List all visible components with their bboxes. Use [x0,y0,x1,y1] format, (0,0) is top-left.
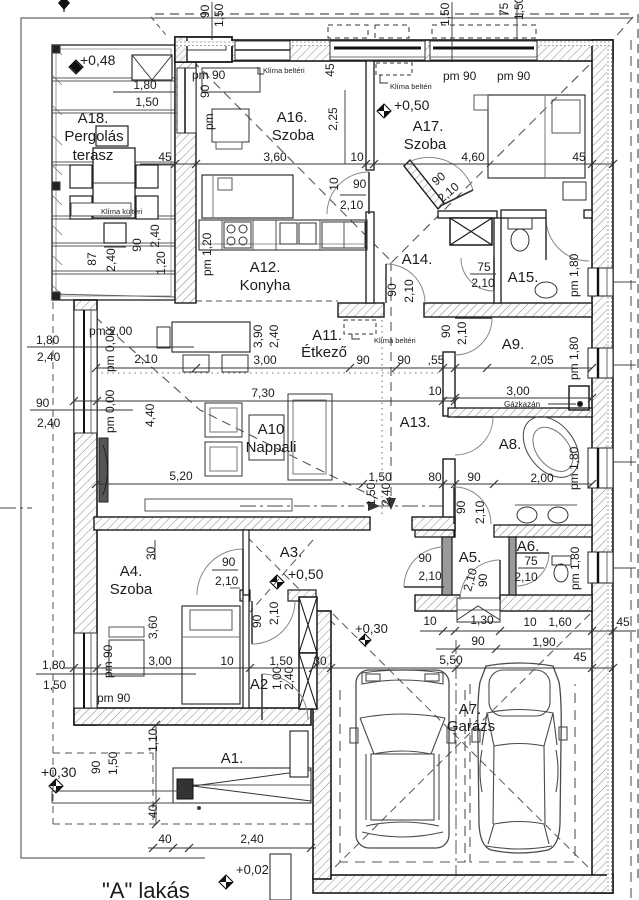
A15 door dim lines [470,273,496,275]
svg-text:45: 45 [572,150,586,164]
dim line y631 garage [420,630,636,632]
svg-text:90: 90 [454,500,468,514]
A10 sofa [288,394,332,480]
svg-text:75: 75 [524,554,538,568]
svg-text:45: 45 [616,615,630,629]
svg-text:A6.: A6. [517,538,540,555]
roof lines A3 area [247,537,335,625]
porch vertical dim x156 [155,725,157,824]
svg-text:+0,30: +0,30 [355,621,388,636]
eave dashed porch vertical [152,753,154,824]
svg-text:5,20: 5,20 [169,469,193,483]
svg-text:2,40: 2,40 [148,224,162,248]
svg-text:A17.: A17. [413,118,444,135]
svg-text:A7.: A7. [459,701,482,718]
level marker +0,30 left [49,779,63,793]
svg-text:+0,02: +0,02 [236,862,269,877]
svg-text:pm 0,00: pm 0,00 [103,389,117,433]
svg-text:+0,48: +0,48 [80,52,116,68]
svg-text:Nappali: Nappali [246,439,297,456]
A5 step box [457,598,500,622]
svg-text:2,40: 2,40 [37,350,61,364]
svg-text:30: 30 [144,546,158,560]
svg-text:87: 87 [85,252,99,266]
dim line left 90/2,40 [30,409,133,411]
door A15 entry [546,218,589,261]
svg-text:Szoba: Szoba [404,136,447,153]
window left wall A4 [74,633,97,708]
dining chairs [183,355,209,372]
svg-text:45: 45 [158,150,172,164]
svg-text:80: 80 [428,470,442,484]
svg-text:A15.: A15. [508,269,539,286]
A4/A2 wall [243,595,249,708]
door A5 from A8 [454,487,491,524]
level mark symbols [70,61,82,73]
svg-text:A5.: A5. [459,549,482,566]
svg-text:90: 90 [130,238,144,252]
wall A13/A9 A8 vertical [443,352,455,416]
svg-text:1,50: 1,50 [438,2,452,26]
A4 desk [109,640,144,676]
svg-text:5,50: 5,50 [439,653,463,667]
right wall [592,40,613,893]
A16 bed [202,175,293,218]
door A8 from A13 [455,417,493,455]
svg-text:Étkező: Étkező [301,344,347,361]
svg-text:10: 10 [428,384,442,398]
A1 porch steps [173,768,311,803]
A16 desk [212,109,249,142]
A17 klima dashed box [376,63,412,75]
svg-text:"A" lakás: "A" lakás [102,878,190,900]
svg-text:+0,50: +0,50 [288,566,324,582]
roof hip diagonal from top-right [392,44,610,262]
svg-text:1,80: 1,80 [36,333,60,347]
sink [280,223,297,244]
window right wall A9 [588,348,636,378]
svg-text:A8.: A8. [499,436,522,453]
wall kitchen/dining y303 [338,303,384,317]
svg-text:2,40: 2,40 [282,666,296,690]
blind boxes dashed above windows [328,25,368,38]
dim line porch y848 [148,847,316,849]
A17 nightstand [563,182,586,200]
svg-text:90: 90 [439,324,453,338]
door A4 [197,549,243,595]
svg-text:4,60: 4,60 [461,150,485,164]
A15 sink [535,282,557,298]
dim line y368 [96,367,592,369]
svg-text:2,10: 2,10 [473,500,487,524]
svg-text:10: 10 [423,614,437,628]
A15 toilet [508,218,532,229]
level marker pergola [69,60,83,74]
svg-text:3,60: 3,60 [263,150,287,164]
svg-text:4,40: 4,40 [143,403,157,427]
svg-text:90: 90 [198,84,212,98]
svg-text:90: 90 [467,470,481,484]
parking bay dashed right [470,684,575,862]
wall A14/A15 vertical [494,218,501,303]
svg-text:2,00: 2,00 [530,471,554,485]
A3 left wall thin [243,530,249,595]
svg-text:pm 90: pm 90 [97,691,131,705]
svg-text:2,10: 2,10 [455,321,469,345]
svg-text:,55: ,55 [428,353,445,367]
door A6 [516,553,549,586]
svg-text:1,50: 1,50 [106,751,120,775]
svg-text:A12.: A12. [250,259,281,276]
A3 bottom wall [240,590,250,601]
svg-text:2,40: 2,40 [104,248,118,272]
north arrow [58,0,70,10]
A1 bench lines [52,790,179,792]
dotted line A13 [381,320,383,516]
section dash-dot line [0,507,32,509]
svg-text:1,50: 1,50 [364,482,378,506]
A10 armchairs [205,403,242,437]
dining table [172,322,250,352]
svg-text:pm: pm [202,113,216,130]
svg-text:2,10: 2,10 [134,352,158,366]
insulation strip right wall [607,41,612,892]
window A16 top [330,41,425,60]
svg-text:+0,30: +0,30 [41,764,77,780]
wall A9/A8 [448,408,592,417]
top-left corner pillar [175,37,232,62]
property boundary dashed top [155,13,633,15]
door A17 diagonal [411,157,473,190]
wall above chimney A14 [438,211,497,218]
level marker A17 [377,104,391,118]
cabinet right [322,222,365,248]
svg-text:3,90: 3,90 [251,324,265,348]
dim line y649 garage [436,648,592,650]
dim line left 1,80/2,40 [27,346,194,348]
pergola beams [52,78,175,297]
level marker +0,02 [219,875,233,889]
top dim vertical x452 [451,2,453,62]
roof corner diagonal top-right [612,17,633,41]
svg-text:90: 90 [250,614,264,628]
svg-text:90: 90 [89,760,103,774]
svg-text:Szoba: Szoba [272,127,315,144]
wall A8/A6 [415,525,454,537]
south wing bottom wall [415,595,460,611]
svg-text:Klíma beltéri: Klíma beltéri [390,82,432,91]
svg-text:A10: A10 [258,421,285,438]
svg-text:A4.: A4. [120,563,143,580]
dotted line kitchen/dining separator [196,300,338,302]
door A9 [455,318,492,355]
svg-text:A3.: A3. [280,544,303,561]
svg-text:90: 90 [397,353,411,367]
insulation strip top wall [176,41,612,46]
A16 klima text bracket [258,67,264,74]
svg-text:A16.: A16. [277,109,308,126]
stove burners [224,222,251,248]
svg-text:90: 90 [353,177,367,191]
top dim vertical x517 [516,2,518,40]
car 1 SUV [350,670,455,848]
svg-text:7,30: 7,30 [251,386,275,400]
A16 wardrobe [202,68,260,92]
level marker garage [359,634,371,646]
svg-text:45: 45 [323,63,337,77]
top wall [175,40,613,61]
svg-text:2,10: 2,10 [215,574,239,588]
bottom pillar box [270,854,291,900]
dim line y665 left [63,667,331,669]
eave dashed left [52,302,54,824]
svg-text:Konyha: Konyha [240,277,292,294]
AC outdoor unit [104,223,126,243]
garage bottom wall [313,875,613,893]
dim line left 1,80/1,50 [36,673,196,675]
svg-text:1,50: 1,50 [212,3,226,27]
svg-text:90: 90 [418,551,432,565]
kitchen counter [199,220,367,250]
svg-text:A18.: A18. [78,110,109,127]
svg-text:90: 90 [471,634,485,648]
svg-text:A11.: A11. [312,327,342,344]
svg-text:10: 10 [350,150,364,164]
roof gutter dashed right [630,40,632,900]
svg-text:2,40: 2,40 [37,416,61,430]
svg-text:2,10: 2,10 [471,276,495,290]
roof hip across nappali [84,307,386,503]
garage axis dash-dot [455,640,457,880]
svg-text:10: 10 [523,615,537,629]
svg-text:1,30: 1,30 [470,613,494,627]
svg-text:2,10: 2,10 [418,569,442,583]
svg-text:2,40: 2,40 [267,324,281,348]
slope arrow [386,498,396,510]
svg-text:Klíma beltéri: Klíma beltéri [374,336,416,345]
door A2 top [252,601,295,644]
pergola A18 outline [52,45,175,300]
dim line y668 garage [331,667,613,669]
svg-text:3,00: 3,00 [506,384,530,398]
svg-text:10: 10 [220,654,234,668]
garage left wall [313,611,331,879]
A8 bathtub [512,406,590,488]
svg-text:10: 10 [327,177,341,191]
svg-text:30: 30 [313,654,327,668]
terrace table [93,148,135,218]
svg-text:pm 1,80: pm 1,80 [567,336,581,380]
svg-text:Gázkazán: Gázkazán [504,400,540,409]
window A17 top [430,41,537,60]
svg-text:+0,50: +0,50 [394,97,430,113]
dim line y484 [96,483,592,485]
door A16 [327,172,369,214]
A10 coffee table [249,415,284,460]
klima kulteri label box [71,203,131,216]
svg-text:90: 90 [36,396,50,410]
svg-text:Szoba: Szoba [110,581,153,598]
svg-text:75: 75 [497,2,511,16]
eave dashed porch bottom [53,823,313,825]
garage roof X [333,614,590,869]
A11 klima dashed box [344,320,376,334]
svg-text:pm 90: pm 90 [497,69,531,83]
svg-text:1,50: 1,50 [43,678,67,692]
house left wall [74,300,97,725]
svg-text:1,10: 1,10 [146,728,160,752]
pergola dim line 1,80/1,50 [113,91,176,93]
svg-text:75: 75 [477,260,491,274]
svg-text:A14.: A14. [402,251,433,268]
svg-text:pm 90: pm 90 [101,644,115,678]
svg-text:1,90: 1,90 [532,635,556,649]
window top wall pergola door [235,41,290,60]
diagonal wall A17/A14 [404,160,444,209]
wall A16/A14 vertical [366,61,374,170]
door A13 to A3 [386,264,425,303]
A9 boiler [569,386,589,410]
A4 bed [182,606,240,704]
A10 low cabinet along wall [145,499,292,511]
svg-text:90: 90 [222,555,236,569]
property boundary right dashed [637,14,639,880]
svg-text:40: 40 [146,804,160,818]
car 2 sedan [472,663,567,853]
A6 toilet [552,556,571,565]
A17 bed [488,95,585,178]
terrace glass door left wall nappali [74,310,97,433]
pergola corner posts [52,45,60,53]
svg-text:A9.: A9. [502,336,525,353]
svg-text:1,80: 1,80 [133,78,157,92]
svg-text:45: 45 [573,650,587,664]
A5 left wall [442,537,452,595]
svg-text:A13.: A13. [400,414,431,431]
svg-text:Garázs: Garázs [447,718,495,735]
svg-text:1,60: 1,60 [548,615,572,629]
svg-text:3,60: 3,60 [146,615,160,639]
svg-text:1,50: 1,50 [135,95,159,109]
svg-text:3,00: 3,00 [253,353,277,367]
svg-text:2,05: 2,05 [530,353,554,367]
svg-text:pm 0,00: pm 0,00 [103,328,117,372]
svg-text:2,40: 2,40 [240,832,264,846]
svg-text:pm 1,80: pm 1,80 [568,546,582,590]
svg-text:90: 90 [385,283,399,297]
svg-text:90: 90 [356,353,370,367]
svg-text:A2: A2 [250,676,268,693]
A5 right wall [509,537,516,595]
shaft with X columns [299,597,317,653]
svg-text:A1.: A1. [221,750,244,767]
A8 sinks counter [515,504,577,506]
roof valley vertical [390,262,392,500]
wall A10/A4 [94,517,370,530]
svg-text:pm 1,20: pm 1,20 [200,232,214,276]
svg-text:1,50: 1,50 [269,654,293,668]
svg-text:pm 1,80: pm 1,80 [567,253,581,297]
svg-text:Pergolás: Pergolás [64,128,123,145]
svg-text:40: 40 [158,832,172,846]
svg-text:2,10: 2,10 [402,279,416,303]
chimney A14 with X [450,218,492,245]
window right wall A15 [588,268,636,296]
svg-text:pm 90: pm 90 [192,68,226,82]
level marker A3 [270,575,284,589]
door A5 bottom [460,560,500,600]
svg-text:2,25: 2,25 [326,107,340,131]
porch niche box [290,731,308,777]
wall A15 top [501,210,546,218]
svg-text:terasz: terasz [73,147,114,164]
window right wall A6 [588,552,636,583]
svg-text:1,80: 1,80 [42,658,66,672]
A17 small table [474,95,488,110]
A10 tv [99,438,108,502]
door A2 entrance [262,674,308,720]
door A15 small [461,258,494,291]
svg-text:2,10: 2,10 [514,570,538,584]
pergola left post band ticks [52,45,62,295]
svg-text:2,40: 2,40 [379,482,393,506]
svg-text:1,20: 1,20 [154,251,168,275]
opening pergola wall top [177,68,196,133]
svg-text:pm 90: pm 90 [443,69,477,83]
pergola-side wall of A16/A12 [175,61,196,303]
svg-text:Klíma kültéri: Klíma kültéri [101,207,143,216]
pergola top-right window box to house [132,55,172,80]
svg-text:1,50: 1,50 [512,0,526,20]
svg-text:pm 1,80: pm 1,80 [567,446,581,490]
roof hip diagonal from top-left [182,50,392,262]
svg-text:90: 90 [198,4,212,18]
window right wall A8 [588,448,636,488]
house bottom-left wall [74,708,311,725]
svg-text:3,00: 3,00 [148,654,172,668]
terrace chairs [70,165,92,188]
top dim vertical x212 [211,2,213,40]
dotted line row étkező [96,372,443,374]
terrace bench top [96,126,128,146]
svg-text:2,10: 2,10 [267,601,281,625]
dim line y164 [140,163,613,165]
svg-text:Klíma beltéri: Klíma beltéri [263,66,305,75]
svg-text:2,10: 2,10 [340,198,364,212]
door A5 from A13 [404,547,444,587]
parking bay dashed left [340,690,465,862]
dim line y401 [74,400,455,402]
svg-text:1,50: 1,50 [368,470,392,484]
